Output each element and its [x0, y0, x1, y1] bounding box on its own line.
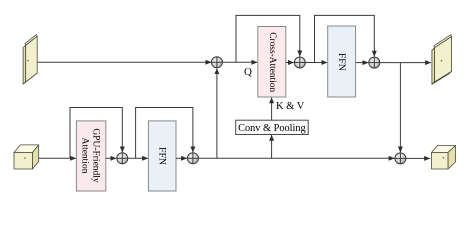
wire GPU-Friendly Attention to adder A5 — [106, 157, 116, 159]
adder A7 — [395, 153, 406, 164]
svg-text:Conv & Pooling: Conv & Pooling — [238, 123, 306, 134]
block U3 GPU-Friendly Attention — [76, 121, 105, 191]
block U4 FFN (bottom) — [148, 121, 176, 191]
output token cube O2 (bottom-right) — [432, 146, 456, 170]
wire Conv &amp; Pooling to Cross-Attention (K &amp; V input) — [271, 98, 273, 121]
wire A3 to output plane O1 — [380, 62, 431, 64]
wire bottom-net branch up into A1 — [216, 69, 218, 159]
wire branch up into Conv &amp; Pooling — [271, 135, 273, 158]
svg-text:Cross-Attention: Cross-Attention — [267, 32, 277, 92]
adder A1 — [211, 57, 222, 68]
svg-text:FFN: FFN — [157, 147, 168, 165]
svg-text:Q: Q — [244, 66, 252, 78]
svg-text:K & V: K & V — [276, 101, 305, 112]
adder A6 — [187, 153, 198, 164]
wire A2 to FFN (top) — [305, 62, 327, 64]
input feature-map plane I1 (top-left) — [23, 35, 37, 85]
wire A5 to FFN (bottom) — [128, 157, 148, 159]
block U5 Conv & Pooling — [236, 120, 309, 134]
wire FFN (top) to adder A3 — [356, 62, 369, 64]
skip wire S2 over FFN (top) — [315, 15, 375, 62]
wire branch from top net down into adder A7 — [399, 63, 401, 153]
wire A7 to output cube O2 — [406, 157, 430, 159]
wire FFN (bottom) to adder A6 — [176, 157, 187, 159]
skip wire S1 over Cross-Attention — [236, 15, 300, 62]
wire I2 to GPU-Friendly Attention — [39, 157, 76, 159]
block U1 Cross-Attention — [258, 27, 286, 98]
skip wire S4 over FFN (bottom) — [136, 108, 193, 159]
wire A6 to adder A7 (bottom net) — [198, 157, 394, 159]
adder A5 — [117, 153, 128, 164]
wire I1 to adder A1 — [38, 61, 211, 63]
wire A1 to Cross-Attention (Q input) — [222, 61, 257, 63]
input token cube I2 (bottom-left) — [14, 145, 39, 169]
skip wire S3 over GPU-Friendly Attention — [70, 108, 122, 159]
svg-text:FFN: FFN — [336, 53, 347, 71]
block U2 FFN (top) — [328, 26, 356, 97]
output feature-map plane O1 (top-right) — [432, 35, 452, 85]
adder A2 — [294, 57, 305, 68]
wire Cross-Attention to adder A2 — [286, 62, 294, 64]
adder A3 — [369, 57, 380, 68]
